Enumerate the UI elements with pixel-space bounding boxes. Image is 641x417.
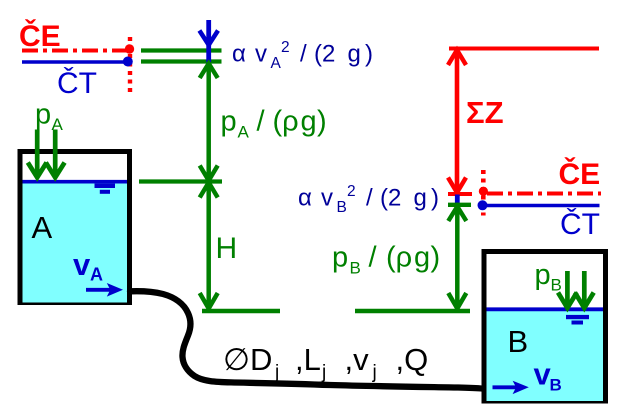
svg-text:): ) bbox=[431, 185, 439, 212]
CT level tick at A (green) bbox=[141, 59, 222, 63]
tank A water fill bbox=[23, 180, 128, 303]
label pA/(rho g) bbox=[221, 106, 327, 142]
datum line right segment bbox=[355, 309, 470, 314]
label alpha vA^2/(2g) bbox=[232, 39, 373, 72]
svg-text:g: g bbox=[414, 242, 430, 274]
svg-text:,L: ,L bbox=[295, 342, 321, 377]
label alpha vB^2/(2g) bbox=[298, 183, 439, 216]
svg-text:): ) bbox=[365, 41, 373, 68]
svg-text:): ) bbox=[317, 106, 327, 138]
svg-text:A: A bbox=[90, 265, 103, 285]
green chevron down to water level A bbox=[200, 166, 218, 181]
svg-text:/: / bbox=[300, 41, 307, 68]
piezometric line CT left (blue solid) bbox=[22, 60, 131, 64]
red node dot at B bbox=[479, 187, 488, 196]
svg-text:B: B bbox=[550, 376, 562, 395]
velocity arrow A bbox=[86, 283, 123, 297]
svg-text:ČE: ČE bbox=[19, 19, 61, 53]
svg-text:(2: (2 bbox=[380, 185, 401, 212]
svg-text:B: B bbox=[337, 199, 347, 216]
pipe bbox=[130, 291, 483, 388]
label vB bbox=[534, 357, 562, 395]
energy grade line CE left (red dash-dot) bbox=[22, 49, 130, 53]
svg-text:ČT: ČT bbox=[57, 66, 97, 100]
svg-text:/: / bbox=[369, 242, 378, 274]
svg-text:p: p bbox=[221, 106, 237, 138]
svg-text:B: B bbox=[508, 324, 529, 359]
water surface symbol A bbox=[95, 184, 116, 188]
blue connector bar between CE and CT levels at A bbox=[206, 44, 211, 64]
svg-text:v: v bbox=[73, 247, 91, 282]
svg-text:A: A bbox=[238, 123, 250, 142]
svg-text:j: j bbox=[274, 362, 279, 383]
svg-text:p: p bbox=[332, 242, 348, 274]
svg-text:g: g bbox=[348, 41, 361, 68]
label pipe parameters D L v Q bbox=[223, 342, 428, 383]
label pA above tank A bbox=[35, 99, 64, 135]
svg-text:g: g bbox=[301, 106, 317, 138]
svg-text:∅D: ∅D bbox=[223, 342, 272, 377]
svg-text:α: α bbox=[232, 41, 246, 68]
red node dot at A bbox=[125, 44, 134, 53]
tank B water fill bbox=[487, 308, 604, 402]
red dotted vertical at A bbox=[128, 37, 132, 96]
svg-text:v: v bbox=[255, 41, 267, 68]
svg-text:B: B bbox=[350, 259, 361, 278]
blue arrow marking velocity head at A bbox=[199, 20, 218, 45]
svg-text:α: α bbox=[298, 185, 312, 212]
water level extension line A bbox=[139, 179, 222, 183]
label pB inside tank B bbox=[535, 259, 562, 295]
svg-text:/: / bbox=[257, 106, 266, 138]
svg-text:j: j bbox=[372, 362, 377, 383]
svg-text:(2: (2 bbox=[314, 41, 335, 68]
blue node dot at A bbox=[123, 57, 133, 67]
CT level tick at B (green) bbox=[448, 203, 471, 207]
svg-text:A: A bbox=[271, 55, 282, 72]
label pB/(rho g) bbox=[332, 242, 440, 278]
red head loss arrow (sum Z) bbox=[448, 50, 466, 193]
svg-text:p: p bbox=[535, 259, 551, 291]
blue connector bar between CE and CT levels at B bbox=[455, 195, 460, 205]
svg-text:): ) bbox=[431, 242, 441, 274]
pressure arrow pA 1 bbox=[28, 130, 47, 178]
svg-text:,Q: ,Q bbox=[396, 342, 429, 377]
svg-text:,v: ,v bbox=[345, 342, 370, 377]
pressure arrow pA 2 bbox=[46, 130, 65, 178]
water surface symbol B bbox=[566, 315, 589, 319]
svg-text:ČT: ČT bbox=[560, 207, 600, 241]
pressure arrow pB 1 bbox=[558, 271, 577, 308]
green chevron up from below water level A bbox=[200, 183, 218, 198]
tank B bbox=[484, 252, 606, 402]
CE level tick at B (red) bbox=[448, 192, 472, 196]
svg-text:A: A bbox=[32, 210, 53, 245]
svg-text:v: v bbox=[321, 185, 333, 212]
svg-text:j: j bbox=[321, 362, 326, 383]
red energy line top right bbox=[449, 47, 599, 51]
piezometric line CT right (blue solid) bbox=[487, 204, 600, 208]
datum line left segment bbox=[202, 309, 280, 314]
svg-text:(ρ: (ρ bbox=[273, 106, 299, 138]
svg-text:2: 2 bbox=[281, 39, 290, 56]
svg-text:/: / bbox=[366, 185, 373, 212]
tank A bbox=[20, 152, 130, 303]
green vertical measure line at A column bbox=[206, 62, 211, 309]
svg-text:(ρ: (ρ bbox=[386, 242, 412, 274]
pressure arrow pB 2 bbox=[575, 271, 594, 308]
svg-text:2: 2 bbox=[347, 183, 356, 200]
green pressure head arrow at B bbox=[448, 206, 466, 309]
energy grade line CE right (red dash-dot) bbox=[487, 192, 601, 196]
tank B water line bbox=[487, 307, 604, 311]
green chevron up to CT level bbox=[200, 64, 218, 79]
tank A water line bbox=[23, 180, 128, 184]
svg-text:H: H bbox=[216, 232, 238, 265]
svg-text:g: g bbox=[414, 185, 427, 212]
CE level tick at A (green) bbox=[141, 48, 222, 52]
red dotted vertical at B bbox=[481, 170, 486, 216]
svg-text:ČE: ČE bbox=[559, 157, 601, 191]
green chevron down to datum bbox=[200, 293, 218, 309]
label vA bbox=[73, 247, 103, 285]
svg-text:ΣZ: ΣZ bbox=[466, 95, 504, 130]
svg-text:p: p bbox=[35, 99, 51, 131]
velocity arrow B bbox=[493, 381, 529, 394]
blue node dot at B bbox=[478, 200, 488, 210]
